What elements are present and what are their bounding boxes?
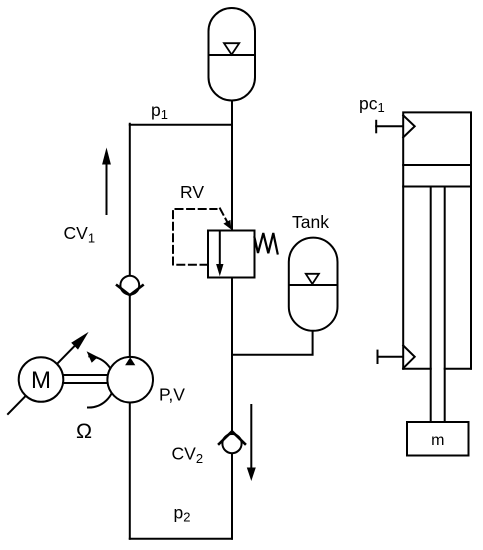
check valve CV1 seat <box>117 285 143 295</box>
wire: left branch vertical line <box>129 124 131 539</box>
mass box m <box>407 422 469 456</box>
wire: p1 horizontal line <box>130 124 232 126</box>
relief valve RV box <box>208 231 255 278</box>
piston lines <box>403 165 471 187</box>
accumulator (top capsule) <box>209 8 256 101</box>
svg-text:Tank: Tank <box>292 212 329 232</box>
tank separator line <box>289 284 337 286</box>
port bottom: chevron <box>403 346 415 369</box>
pump outflow triangle <box>125 357 135 365</box>
svg-text:m: m <box>431 432 444 449</box>
svg-text:Ω: Ω <box>76 419 92 443</box>
pilot arrowhead <box>223 220 231 230</box>
accumulator separator line <box>209 54 255 56</box>
tank accumulator capsule <box>289 238 338 331</box>
pump P circle <box>107 357 153 403</box>
svg-text:P,V: P,V <box>159 385 185 405</box>
motor M circle <box>19 357 64 402</box>
arrow CV2 flow direction (down) <box>250 405 252 467</box>
accumulator gas triangle <box>224 43 239 54</box>
wire: bottom p2 horizontal line <box>130 538 232 540</box>
svg-text:pc1: pc1 <box>359 94 385 115</box>
svg-text:RV: RV <box>180 182 204 202</box>
port pc1 top: line <box>376 125 402 127</box>
pilot dashed diagonal segment <box>220 209 227 222</box>
tank connection wire <box>232 331 313 355</box>
tank gas triangle <box>306 274 319 284</box>
rotation arc arrow <box>88 356 114 407</box>
cylinder body <box>403 112 471 368</box>
svg-text:M: M <box>31 367 51 394</box>
check valve CV2 circle <box>222 434 241 453</box>
variable displacement arrow through motor <box>8 345 76 415</box>
port bottom: line <box>378 356 403 358</box>
relief valve spring <box>255 233 278 254</box>
cylinder bottom edge segments <box>403 368 471 370</box>
svg-text:CV2: CV2 <box>172 443 204 465</box>
svg-text:p2: p2 <box>174 503 191 525</box>
svg-text:CV1: CV1 <box>64 223 96 245</box>
port pc1 top: chevron <box>403 115 415 137</box>
pilot dashed line (RV) <box>173 209 217 265</box>
port pc1 top: tick <box>375 121 377 133</box>
arrow CV1 flow direction (up) <box>106 161 108 214</box>
port bottom: tick <box>377 351 379 363</box>
piston rod lines <box>431 187 445 423</box>
svg-text:p1: p1 <box>151 100 168 122</box>
relief valve internal arrow <box>219 232 221 265</box>
check valve CV2 seat <box>219 431 245 444</box>
check valve CV1 circle <box>120 276 139 295</box>
wire: middle vertical line (accumulator to bottom) <box>231 101 233 539</box>
drive shaft double line <box>63 375 108 383</box>
